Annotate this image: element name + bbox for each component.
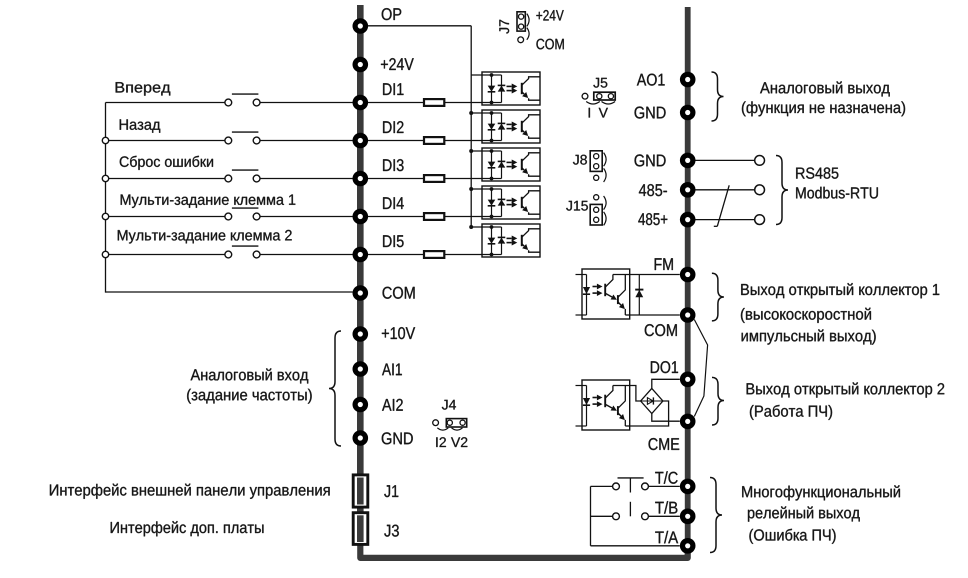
label DI5 — [383, 235, 404, 247]
wire: rail to DI2 switch — [106, 140, 226, 142]
label +10V — [382, 327, 415, 339]
jumper J4 (AI2 I/V select) — [433, 419, 467, 430]
wire: to T/B contact — [591, 515, 613, 517]
wire: switch common rail — [105, 103, 107, 293]
wire: bridge to DO1 terminal — [652, 379, 680, 388]
diode D1 (FM clamp) — [635, 275, 643, 316]
terminal 485- — [680, 182, 696, 198]
label: релейный выход — [748, 506, 860, 521]
wire: 485- to external — [688, 189, 755, 191]
wire: DI5 switch to terminal — [260, 254, 353, 256]
resistor DI4 — [424, 213, 444, 220]
label DI3 — [383, 159, 403, 171]
terminal COM — [680, 307, 696, 323]
optocoupler U3 (DI3 isolator) — [482, 148, 540, 181]
label J3 — [384, 525, 399, 537]
wire: DI4 terminal to optocoupler — [368, 216, 492, 218]
relay K1 contacts — [613, 478, 649, 520]
label: Назад — [120, 119, 161, 132]
open terminal (GND) — [755, 156, 765, 166]
label COM — [383, 287, 415, 299]
optocoupler U2 (DI2 isolator) — [482, 110, 540, 143]
wire: rail to COM terminal — [106, 291, 353, 293]
optocoupler U6 (FM open-collector output) — [576, 269, 630, 319]
label: Интерфейс доп. платы — [111, 521, 264, 536]
terminal DI2 — [353, 133, 369, 149]
label 485- — [639, 184, 667, 196]
wire: U7 collector to bridge — [630, 386, 641, 402]
open terminal (485-) — [755, 185, 765, 195]
switch S2 (Назад) — [225, 132, 260, 144]
wire: FM output to terminal — [630, 274, 680, 276]
label: функция не назначена — [742, 101, 905, 116]
jumper J5 (AO1 I/V select) — [582, 92, 615, 104]
label J5 — [593, 78, 607, 88]
terminal +10V — [353, 326, 369, 342]
label: Аналоговый выход — [760, 81, 890, 96]
label: Мульти-задание клемма 1 — [121, 194, 296, 207]
label J1 — [384, 485, 398, 497]
wire: rail branch to U4 — [471, 188, 491, 190]
wire: rail branch to U2 — [471, 112, 491, 114]
wire: T/C contact to terminal — [648, 485, 679, 487]
brace: RS485 group — [776, 156, 788, 225]
label I (J5) — [589, 108, 590, 118]
terminal T/A — [680, 538, 696, 554]
wire: rail to DI3 switch — [106, 178, 226, 180]
resistor DI2 — [424, 137, 444, 144]
label AI1 — [382, 364, 402, 376]
label AI2 — [382, 399, 403, 411]
wire: to T/A terminal — [591, 545, 680, 547]
label DO1 — [651, 361, 678, 373]
optocoupler U1 (DI1 isolator) — [482, 72, 540, 105]
terminal FM — [680, 267, 696, 283]
optocoupler U4 (DI4 isolator) — [482, 186, 540, 219]
jumper J15 — [590, 195, 606, 226]
wire: to T/C contact — [591, 485, 613, 487]
wire: DI5 terminal to optocoupler — [368, 254, 492, 256]
node on switch rail — [102, 137, 108, 143]
resistor DI3 — [424, 175, 444, 182]
label: Вперед — [116, 82, 171, 95]
label FM — [655, 258, 673, 270]
wire: T/B contact to terminal — [648, 515, 679, 517]
terminal AI2 — [353, 397, 369, 413]
label I2 (J4) — [436, 437, 446, 447]
switch S5 (Мульти-задание клемма 2) — [225, 246, 260, 258]
label GND — [635, 107, 666, 119]
label J8 — [573, 155, 587, 165]
brace: analog input group — [329, 331, 341, 446]
right terminal bus — [685, 7, 691, 550]
switch S3 (Сброс ошибки) — [225, 170, 260, 182]
node on switch rail — [102, 251, 108, 257]
label: импульсный выход — [742, 329, 876, 344]
label AO1 — [637, 74, 665, 86]
label: Аналоговый вход — [191, 368, 309, 383]
terminal DI3 — [353, 171, 369, 187]
wire: from OP terminal — [368, 25, 471, 27]
wire: bridge to CME terminal — [652, 414, 680, 422]
wire: relay left rail — [590, 486, 592, 545]
label DI4 — [383, 197, 404, 209]
label J15 — [566, 201, 588, 211]
label J7 (rotated) — [499, 20, 509, 34]
resistor DI1 — [424, 99, 444, 106]
wire: OP rail down to optocouplers — [470, 26, 472, 227]
twisted-pair slash — [714, 185, 729, 226]
label: Сброс ошибки — [120, 156, 213, 170]
wire: rail branch to U5 — [471, 226, 491, 228]
optocoupler U5 (DI5 isolator) — [482, 224, 540, 257]
wire: DI1 switch to terminal — [260, 102, 353, 104]
terminal T/B — [680, 509, 696, 525]
label T/C — [655, 471, 677, 483]
junction on OP rail — [469, 149, 473, 153]
label J4 — [442, 400, 456, 410]
label: Мульти-задание клемма 2 — [118, 230, 292, 244]
label: высокоскоростной — [741, 308, 871, 323]
wire: DI4 switch to terminal — [260, 216, 353, 218]
label +24V (J7) — [536, 10, 563, 20]
junction on OP rail — [469, 225, 473, 229]
label 485+ — [638, 213, 667, 225]
brace: open collector 2 — [712, 377, 724, 425]
terminal CME — [680, 414, 696, 430]
label V2 (J4) — [451, 437, 467, 447]
left control-terminal bus — [357, 5, 364, 545]
label OP — [382, 8, 402, 20]
terminal DO1 — [680, 372, 696, 388]
terminal GND — [680, 105, 696, 121]
terminal OP — [353, 18, 369, 34]
wire: rail to DI1 switch — [106, 102, 226, 104]
jumper J8 — [590, 151, 606, 182]
brace: analog output — [712, 72, 724, 121]
terminal DI1 — [353, 95, 369, 111]
node on switch rail — [102, 175, 108, 181]
wire: DI3 switch to terminal — [260, 178, 353, 180]
label CME — [649, 438, 680, 450]
label V (J5) — [599, 108, 608, 118]
label: Работа ПЧ — [750, 405, 832, 420]
terminal GND — [353, 430, 369, 446]
label: задание частоты — [187, 389, 312, 404]
label DI2 — [383, 121, 403, 133]
optocoupler U7 (DO1 open-collector output) — [576, 380, 630, 430]
label DI1 — [383, 83, 403, 95]
terminal T/C — [680, 479, 696, 495]
wire: DI3 terminal to optocoupler — [368, 178, 492, 180]
wire: COM return to terminal — [630, 314, 680, 316]
terminal COM — [353, 285, 369, 301]
node on switch rail — [102, 213, 108, 219]
label T/A — [655, 531, 678, 543]
switch S4 (Мульти-задание клемма 1) — [225, 208, 260, 220]
wire: U7 emitter to bridge — [630, 401, 669, 426]
switch S1 (Вперед) — [225, 94, 260, 106]
brace: open collector 1 — [712, 273, 724, 321]
terminal GND — [680, 153, 696, 169]
label: Ошибка ПЧ — [749, 529, 835, 544]
junction on OP rail — [469, 187, 473, 191]
label: Выход открытый коллектор 2 — [747, 382, 945, 397]
label COM (J7) — [536, 39, 563, 50]
bridge rectifier B1 (DO1 output) — [641, 388, 663, 413]
label RS485 — [796, 167, 838, 178]
wire: rail branch to U3 — [471, 150, 491, 152]
brace: relay output — [710, 478, 722, 553]
wire: rail to DI5 switch — [106, 254, 226, 256]
open terminal (485+) — [755, 215, 765, 225]
label T/B — [655, 501, 677, 513]
label Modbus-RTU — [796, 187, 878, 199]
terminal AO1 — [680, 72, 696, 88]
wire: rail branch to U1 — [471, 74, 491, 76]
terminal DI4 — [353, 209, 369, 225]
wire: COM to CME link — [694, 320, 707, 417]
wire: GND to external — [688, 159, 755, 161]
label COM — [645, 324, 677, 336]
connector J3 (option board interface) — [353, 513, 368, 545]
junction on OP rail — [469, 111, 473, 115]
terminal +24V — [353, 57, 369, 73]
bottom bus joining strips (rounded corners) — [360, 542, 687, 558]
wire: DI1 terminal to optocoupler — [368, 102, 492, 104]
terminal 485+ — [680, 212, 696, 228]
wire: 485+ to external — [688, 219, 755, 221]
wire: rail to DI4 switch — [106, 216, 226, 218]
wire: DI2 switch to terminal — [260, 140, 353, 142]
connector J1 (external panel interface) — [353, 475, 368, 507]
terminal AI1 — [353, 361, 369, 377]
label: Выход открытый коллектор 1 — [741, 283, 939, 298]
resistor DI5 — [424, 251, 444, 258]
jumper J7 (+24V/COM select) — [517, 12, 529, 43]
wire: DI2 terminal to optocoupler — [368, 140, 492, 142]
label: Интерфейс внешней панели управления — [50, 484, 330, 499]
label: Многофункциональный — [742, 485, 900, 500]
terminal DI5 — [353, 247, 369, 263]
label +24V — [381, 58, 414, 70]
label GND — [382, 432, 413, 444]
label GND — [635, 154, 666, 166]
